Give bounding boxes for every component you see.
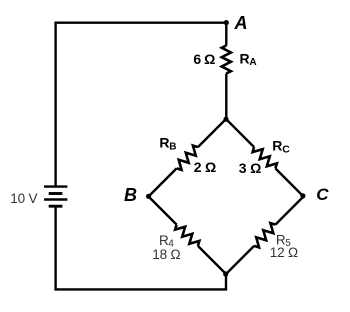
- label: 3 ohm value of RC: [239, 160, 261, 176]
- label: 12 ohm value of R5: [270, 245, 298, 260]
- node C junction dot: [300, 193, 305, 198]
- svg-text:A: A: [234, 13, 248, 33]
- svg-text:18 Ω: 18 Ω: [152, 247, 180, 262]
- svg-text:10 V: 10 V: [10, 191, 37, 206]
- label: 2 ohm value of RB: [194, 159, 216, 175]
- label: RA designator: [240, 51, 257, 68]
- resistor RB zigzag (2 ohm): [177, 146, 198, 170]
- resistor R5 zigzag (12 ohm): [254, 223, 275, 247]
- svg-text:R: R: [159, 135, 169, 151]
- resistor R4 zigzag (18 ohm): [175, 225, 199, 246]
- wire: top node to RB: [198, 119, 226, 147]
- svg-text:A: A: [249, 57, 256, 68]
- wire: node C to R5: [275, 197, 303, 225]
- wire: top node to RC: [226, 119, 254, 147]
- node B junction dot: [146, 194, 151, 199]
- svg-text:C: C: [316, 185, 329, 204]
- label: 10 V battery value: [10, 191, 37, 206]
- battery V1 10 V: [44, 187, 67, 207]
- svg-text:R: R: [272, 137, 282, 153]
- label: node A: [234, 13, 248, 33]
- wire: RA bottom to bridge top node: [225, 74, 227, 120]
- node: bridge bottom junction dot: [223, 271, 228, 276]
- label: 18 ohm value of R4: [152, 247, 180, 262]
- wire: node B to R4: [149, 197, 177, 225]
- node: bridge top junction dot: [223, 117, 228, 122]
- svg-text:C: C: [282, 143, 290, 155]
- wire: RB to node B: [149, 168, 177, 196]
- resistor RA zigzag (6 ohm): [222, 46, 231, 74]
- node A junction dot: [224, 20, 229, 25]
- svg-text:R: R: [240, 51, 250, 67]
- svg-text:6 Ω: 6 Ω: [193, 51, 215, 67]
- svg-text:2 Ω: 2 Ω: [194, 159, 216, 175]
- wire: RC to node C: [275, 168, 303, 196]
- wire: left rail from battery bottom to bottom rail, and bottom rail to diamond bottom node: [56, 206, 226, 289]
- label: 6 ohm value of RA: [193, 51, 215, 67]
- wire: top rail from battery top-left corner to node A: [56, 23, 227, 187]
- wire: R5 to bridge bottom node: [226, 246, 254, 274]
- svg-text:B: B: [124, 185, 137, 205]
- label: node C: [316, 185, 329, 204]
- label: node B: [124, 185, 137, 205]
- svg-text:3 Ω: 3 Ω: [239, 160, 261, 176]
- label: RC designator: [272, 137, 290, 155]
- svg-text:B: B: [169, 142, 176, 153]
- resistor RC zigzag (3 ohm): [253, 147, 277, 168]
- wire: R4 to bridge bottom node: [198, 246, 226, 274]
- label: R5 designator: [276, 232, 291, 249]
- svg-text:12 Ω: 12 Ω: [270, 245, 298, 260]
- label: RB designator: [159, 135, 176, 153]
- label: R4 designator: [159, 233, 174, 249]
